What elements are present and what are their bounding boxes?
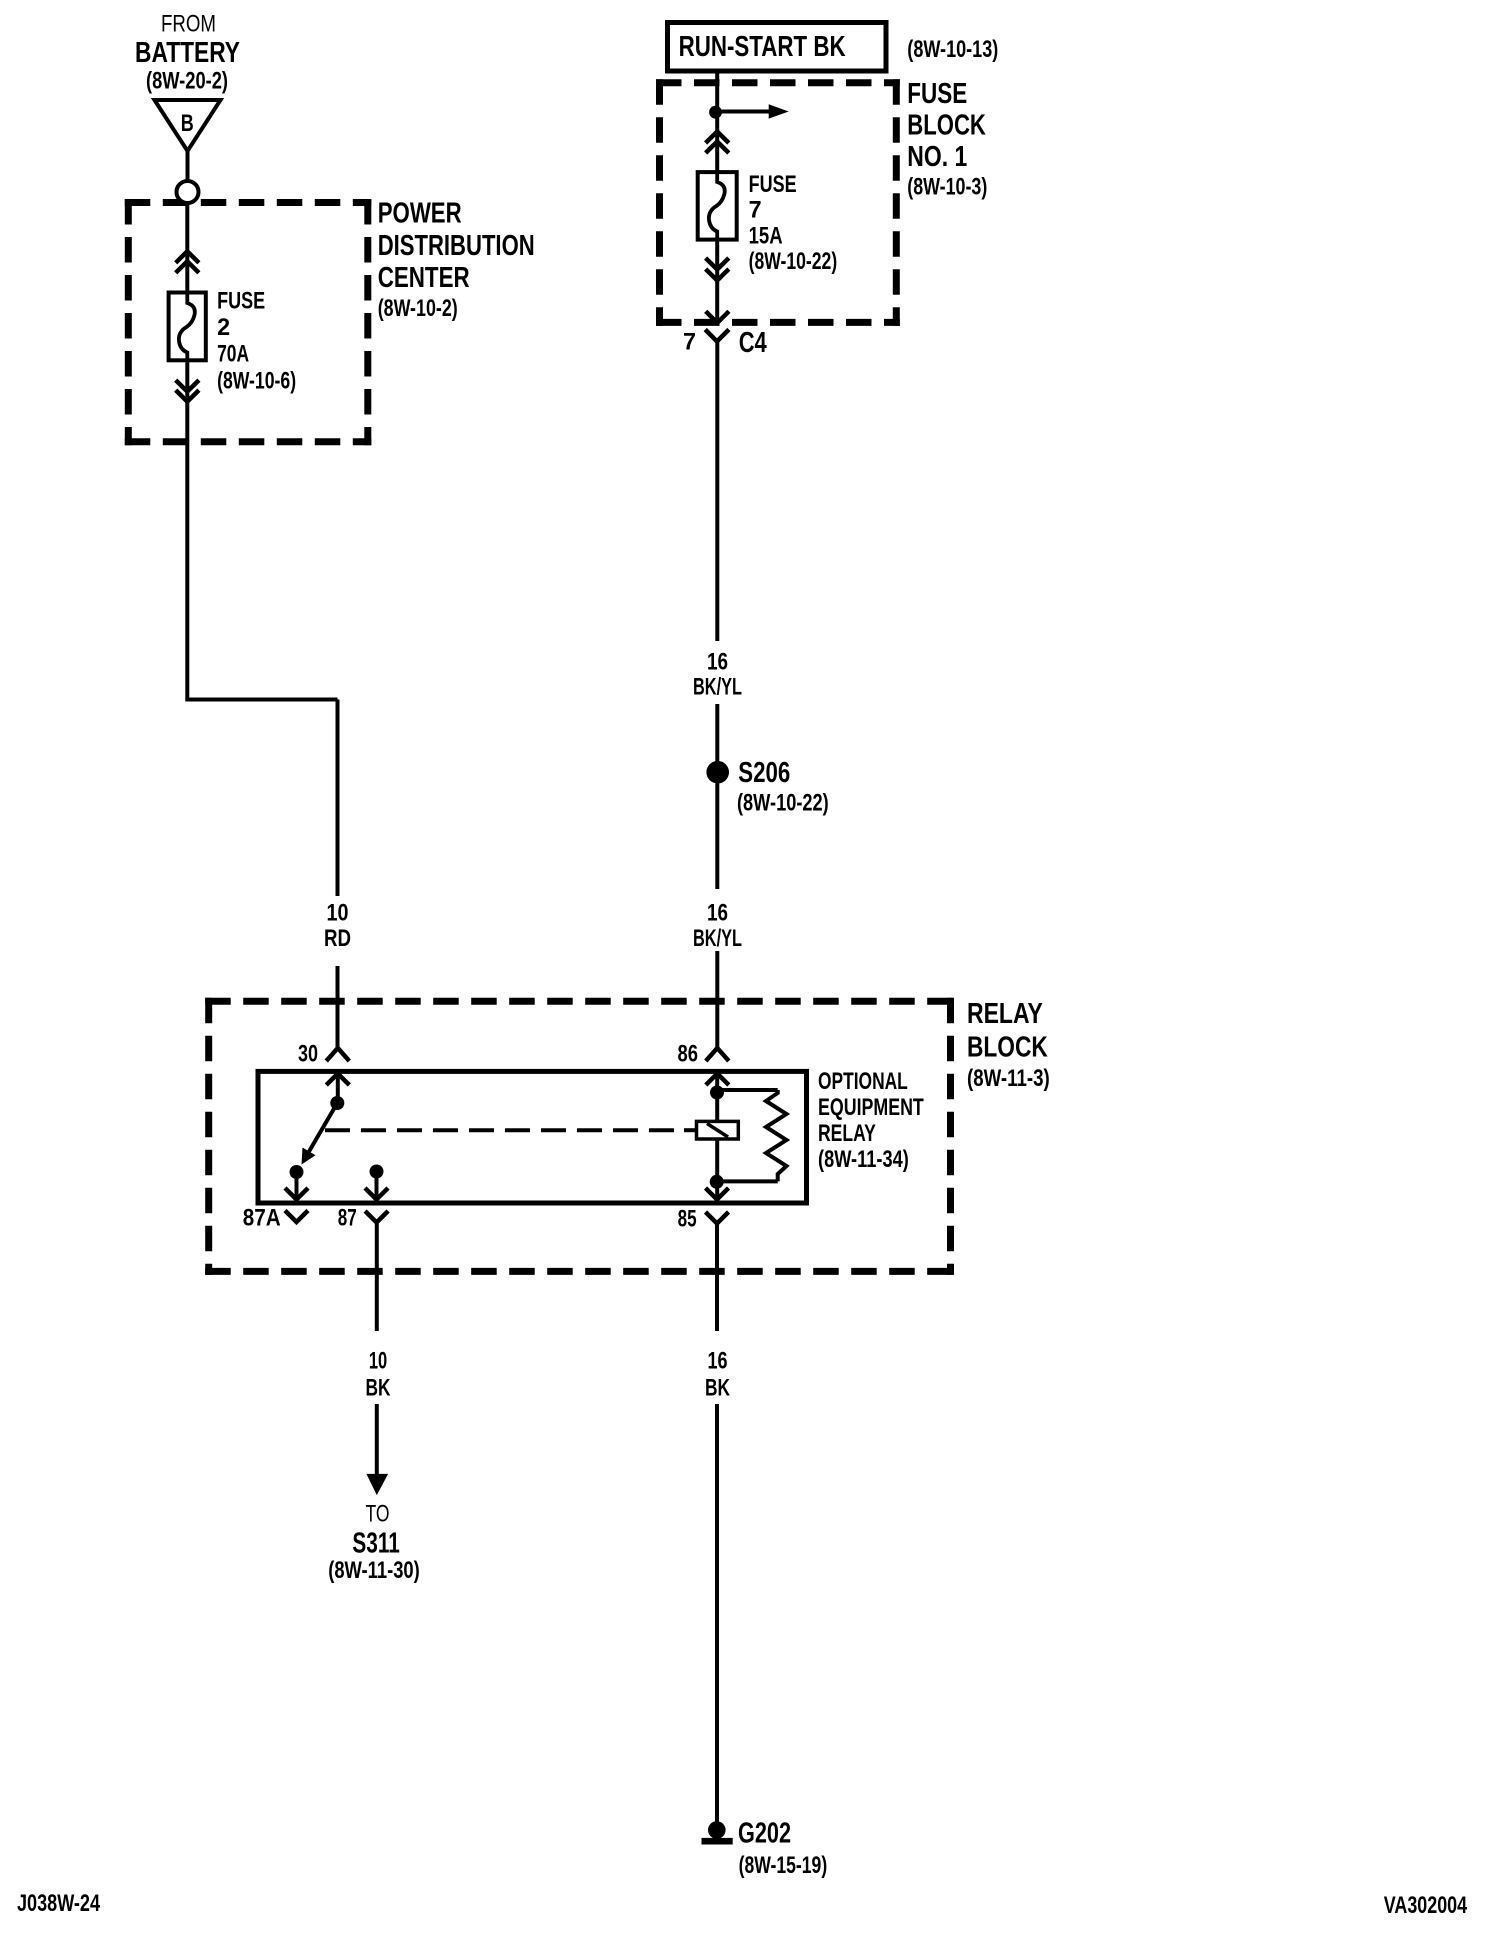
svg-text:OPTIONAL: OPTIONAL: [818, 1068, 908, 1095]
connector C4 chevron above edge: [706, 311, 729, 323]
svg-text:16: 16: [707, 648, 728, 675]
svg-text:(8W-11-30): (8W-11-30): [328, 1557, 420, 1584]
svg-text:30: 30: [298, 1041, 318, 1068]
branch arrow to right in fuse block: [716, 104, 789, 118]
svg-text:10: 10: [327, 900, 349, 927]
wire 10 RD down to relay block (upper segment): [336, 700, 340, 897]
svg-text:FROM: FROM: [161, 11, 216, 38]
coil resistor zigzag: [766, 1090, 787, 1181]
svg-text:(8W-10-22): (8W-10-22): [749, 248, 838, 275]
coil resistor top lead: [717, 1088, 778, 1092]
svg-text:BK/YL: BK/YL: [693, 674, 742, 701]
svg-text:(8W-10-22): (8W-10-22): [737, 789, 829, 816]
87 Y connector below relay box: [365, 1211, 388, 1223]
svg-text:(8W-11-3): (8W-11-3): [967, 1065, 1050, 1092]
svg-text:NO. 1: NO. 1: [907, 141, 967, 173]
pin 86 chevron inside relay box: [706, 1074, 729, 1086]
svg-text:16: 16: [708, 1348, 728, 1375]
svg-text:(8W-20-2): (8W-20-2): [146, 68, 228, 95]
power distribution center dashed box: [125, 199, 371, 445]
double chevron below fuse 2: [176, 380, 199, 402]
wire 16 BK lower segment to ground: [715, 1404, 719, 1824]
svg-text:DISTRIBUTION: DISTRIBUTION: [378, 230, 535, 262]
svg-text:FUSE: FUSE: [749, 171, 797, 198]
wire 10 RD lower segment into relay block pin 30: [336, 966, 340, 1048]
relay block dashed box: [205, 998, 954, 1275]
87 internal wire down: [375, 1172, 379, 1200]
svg-text:RELAY: RELAY: [818, 1120, 876, 1147]
svg-text:BLOCK: BLOCK: [967, 1031, 1048, 1063]
svg-text:EQUIPMENT: EQUIPMENT: [818, 1094, 924, 1121]
svg-text:87A: 87A: [243, 1205, 281, 1232]
coil wire 86 to 85: [715, 1074, 719, 1200]
wire from fuse 7 to connector C4: [715, 242, 719, 323]
wire from fuse 2 down out of PDC: [185, 362, 189, 701]
svg-text:15A: 15A: [749, 222, 783, 249]
splice S206 dot: [706, 761, 729, 784]
svg-text:POWER: POWER: [378, 197, 462, 229]
87A chevron inside relay box: [285, 1188, 308, 1200]
svg-text:BK/YL: BK/YL: [693, 925, 742, 952]
coil top dot (86 side): [710, 1086, 724, 1100]
svg-text:86: 86: [678, 1041, 699, 1068]
pin 30 chevron above relay box: [326, 1048, 349, 1061]
wire 16 BK/YL into relay block pin 86: [715, 951, 719, 1049]
arrowhead to S311: [367, 1474, 387, 1494]
svg-text:B: B: [181, 110, 194, 137]
double chevron below fuse 7: [706, 258, 729, 281]
svg-text:RELAY: RELAY: [967, 998, 1043, 1030]
svg-text:RUN-START BK: RUN-START BK: [679, 31, 846, 63]
switch arm with arrowhead toward 87A: [302, 1103, 338, 1165]
fuse 7 element curve: [709, 170, 725, 242]
optional equipment relay body box: [258, 1071, 807, 1203]
svg-text:87: 87: [338, 1205, 357, 1232]
junction dot in fuse block: [709, 106, 722, 119]
wire from triangle to circle: [186, 151, 190, 181]
87 chevron inside relay box: [365, 1188, 388, 1200]
svg-text:C4: C4: [739, 327, 767, 359]
ground G202 symbol: [702, 1821, 733, 1844]
svg-text:(8W-11-34): (8W-11-34): [818, 1146, 909, 1173]
svg-text:85: 85: [678, 1206, 697, 1233]
svg-text:G202: G202: [738, 1818, 791, 1850]
svg-text:2: 2: [217, 314, 230, 341]
svg-text:BATTERY: BATTERY: [135, 37, 240, 69]
wire jog horizontal to relay column: [187, 698, 337, 702]
eyelet circle at PDC entry: [177, 181, 199, 203]
svg-text:S311: S311: [352, 1528, 399, 1560]
svg-text:(8W-15-19): (8W-15-19): [739, 1852, 828, 1879]
pin 86 chevron above relay box: [706, 1048, 729, 1061]
svg-text:(8W-10-2): (8W-10-2): [378, 295, 458, 322]
87A chevron below relay box: [285, 1211, 308, 1223]
svg-text:TO: TO: [366, 1500, 390, 1527]
svg-text:CENTER: CENTER: [378, 262, 470, 294]
svg-text:7: 7: [749, 197, 762, 224]
svg-text:S206: S206: [738, 757, 790, 789]
wire 10 BK lower segment to arrow: [375, 1404, 379, 1476]
svg-text:(8W-10-6): (8W-10-6): [217, 368, 296, 395]
wire from RUN-START BK box into fuse block: [715, 71, 719, 170]
coil bottom dot (85 side): [710, 1175, 724, 1189]
dashed mechanical linkage line: [325, 1128, 697, 1132]
wire 10 BK from pin 87 (upper segment): [375, 1223, 379, 1331]
svg-text:VA302004: VA302004: [1384, 1892, 1468, 1919]
svg-text:J038W-24: J038W-24: [17, 1890, 100, 1917]
RUN-START BK label box: [668, 23, 887, 72]
svg-text:BK: BK: [366, 1374, 391, 1401]
svg-text:FUSE: FUSE: [217, 288, 265, 315]
svg-text:FUSE: FUSE: [907, 78, 967, 110]
connector C4 Y symbol below edge: [705, 330, 729, 342]
wire 16 BK/YL middle segment to splice: [715, 704, 719, 762]
wire 16 BK from pin 85 (upper segment): [715, 1224, 719, 1331]
wire from circle into PDC to fuse 2: [185, 203, 189, 291]
relay armature box with diagonal: [697, 1121, 739, 1139]
wire 16 BK/YL below splice: [715, 782, 719, 889]
double chevron above fuse 2: [176, 251, 199, 272]
wire 16 BK/YL from C4 (upper segment): [715, 341, 719, 641]
svg-text:(8W-10-13): (8W-10-13): [907, 36, 998, 63]
contact dot 87: [370, 1165, 384, 1179]
svg-text:7: 7: [683, 329, 696, 356]
svg-text:16: 16: [707, 900, 728, 927]
svg-text:BLOCK: BLOCK: [907, 109, 986, 141]
svg-text:70A: 70A: [217, 341, 249, 368]
pin 30 chevron inside relay box: [326, 1074, 349, 1086]
switch pivot dot (pin 30): [330, 1096, 344, 1110]
battery feed triangle symbol B: [155, 100, 221, 151]
svg-text:10: 10: [369, 1348, 387, 1375]
fuse 2 symbol box: [169, 293, 206, 361]
pin 85 chevron inside relay box: [706, 1188, 729, 1200]
contact dot 87A: [290, 1165, 304, 1179]
svg-text:RD: RD: [324, 925, 351, 952]
pin 30 internal wire to pivot: [336, 1074, 340, 1101]
fuse 2 element curve: [179, 291, 195, 363]
pin 85 Y connector below relay box: [706, 1212, 729, 1224]
svg-text:(8W-10-3): (8W-10-3): [907, 174, 987, 201]
fuse 7 symbol box: [698, 172, 737, 240]
87A internal wire down: [295, 1172, 299, 1200]
coil resistor bottom lead: [717, 1179, 778, 1183]
svg-text:BK: BK: [705, 1374, 730, 1401]
double chevron above fuse 7: [706, 132, 729, 154]
fuse block no.1 dashed box: [656, 79, 900, 326]
